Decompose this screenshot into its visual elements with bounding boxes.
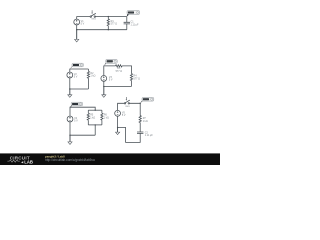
svg-text:577 Ω: 577 Ω [134,78,141,81]
svg-text:5 V: 5 V [74,120,78,123]
svg-text:http://circuitlab.com/c/gnzbkf: http://circuitlab.com/c/gnzbkf/lab5va [45,158,95,162]
svg-text:5 V: 5 V [122,114,126,117]
svg-text:5 V: 5 V [81,23,85,26]
svg-text:577 Ω: 577 Ω [116,70,123,73]
svg-text:1.11 μF: 1.11 μF [131,23,140,26]
svg-text:1 kΩ: 1 kΩ [104,116,109,119]
svg-text:1 kΩ: 1 kΩ [90,116,95,119]
svg-text:5 V: 5 V [109,79,113,82]
svg-text:577 Ω: 577 Ω [111,23,118,26]
svg-text:1 kΩ: 1 kΩ [90,75,95,78]
svg-text:5 V: 5 V [74,76,78,79]
svg-text:1 kΩ: 1 kΩ [143,120,148,123]
svg-text:1.11 μF: 1.11 μF [145,134,154,137]
svg-text:LAB: LAB [24,159,33,164]
